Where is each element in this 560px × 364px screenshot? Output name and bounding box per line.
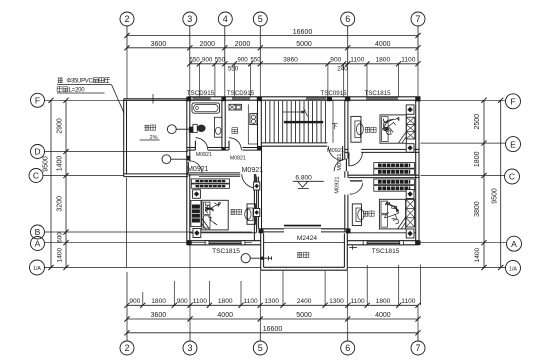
grid bubble F left	[31, 93, 45, 107]
label bedroom3	[230, 209, 235, 211]
grid bubble 1/A right	[506, 261, 521, 276]
dimension extension lines top	[127, 48, 418, 99]
window TSC1815 bottom-left bedroom	[205, 241, 245, 245]
svg-text:M0921: M0921	[242, 167, 264, 174]
svg-text:1100: 1100	[401, 298, 416, 305]
svg-text:6: 6	[345, 343, 350, 353]
window TSC0915 stair top	[306, 97, 326, 100]
svg-text:2: 2	[124, 343, 129, 353]
svg-text:1100: 1100	[351, 298, 366, 305]
svg-text:C: C	[509, 172, 515, 182]
svg-text:7: 7	[415, 343, 420, 353]
svg-text:9500: 9500	[492, 188, 499, 204]
grid bubble 5 bottom	[253, 341, 267, 355]
grid line F	[45, 99, 126, 101]
stair handrail	[284, 121, 323, 123]
dimension line row1 bottom	[124, 298, 420, 308]
grid bubble A right	[507, 236, 522, 251]
svg-text:M0821: M0821	[196, 152, 212, 158]
right dimension line 9500	[492, 98, 504, 270]
svg-text:550: 550	[228, 66, 239, 73]
grid bubble 4 top	[218, 12, 232, 26]
svg-text:2400: 2400	[297, 298, 312, 305]
corner column living-terrace left	[259, 228, 264, 233]
column south-west corner	[187, 240, 192, 245]
kitchen counter edge	[248, 104, 257, 144]
grid bubble F right	[506, 94, 521, 109]
svg-text:TSC1815: TSC1815	[364, 90, 391, 97]
column top wall bath-kitchen	[221, 97, 226, 102]
svg-text:2900: 2900	[57, 118, 64, 134]
grid bubble C right	[505, 169, 520, 184]
window TSC1815 bedroom top	[366, 97, 398, 100]
south wall row A left part	[187, 241, 261, 245]
grid bubble 3 bottom	[183, 341, 197, 355]
kitchen stair wall	[258, 100, 262, 150]
wardrobe band bedroom3 north	[191, 179, 229, 188]
door M0921 stair	[328, 146, 342, 160]
svg-text:900: 900	[177, 298, 188, 305]
bathroom vanity	[215, 117, 223, 137]
svg-text:TSC1815: TSC1815	[372, 248, 400, 255]
grid bubble 1/A left	[30, 260, 45, 275]
svg-text:M2424: M2424	[297, 235, 317, 242]
column top wall at grid3	[187, 97, 192, 102]
svg-text:1800: 1800	[151, 298, 166, 305]
dimension extension lines bottom	[127, 178, 421, 333]
column top wall kitchen-stair	[257, 97, 262, 102]
column top wall grid6	[345, 97, 350, 102]
grid stems top	[127, 26, 418, 64]
rain pipe symbol terrace	[241, 254, 272, 263]
level mark 6.800	[293, 175, 324, 189]
riser tick on terrace top wall	[152, 94, 154, 104]
svg-text:240: 240	[337, 66, 348, 73]
grid bubble D left	[31, 145, 45, 159]
left dimension line segments	[57, 98, 69, 270]
leader note UPVC rain pipe	[57, 78, 124, 113]
svg-text:3800: 3800	[474, 201, 481, 217]
window TSCD915 kitchen top	[232, 97, 250, 100]
wardrobe bedroom3 west vertical	[191, 201, 201, 227]
grid line 1/A	[45, 267, 261, 269]
dimension line row2 bottom	[124, 312, 420, 322]
exterior wall left	[187, 97, 190, 245]
dresser bedroom3	[245, 204, 256, 224]
exterior wall right	[416, 97, 419, 245]
svg-text:3600: 3600	[151, 312, 167, 319]
svg-text:1/A: 1/A	[33, 266, 41, 272]
svg-text:4000: 4000	[217, 312, 233, 319]
svg-text:Φ35UPVC: Φ35UPVC	[67, 79, 94, 85]
svg-text:1400: 1400	[57, 247, 64, 262]
svg-text:5: 5	[258, 343, 263, 353]
column south-east corner	[415, 240, 420, 245]
door M0921 bedroom2	[350, 181, 363, 194]
bedroom3 east wall	[254, 174, 256, 241]
grid bubble 6 bottom	[341, 341, 355, 355]
svg-text:550: 550	[189, 57, 200, 64]
svg-text:M0921: M0921	[327, 148, 344, 154]
svg-text:1400: 1400	[57, 156, 64, 172]
window TSC1815 bottom-right bedroom	[363, 241, 403, 245]
bathroom kitchen divider wall	[222, 100, 225, 150]
grid bubble 3 top	[183, 12, 197, 26]
grid line C right	[421, 175, 505, 177]
terrace label top-left	[140, 125, 160, 141]
grid line A	[45, 242, 253, 244]
interior line row B	[190, 232, 416, 234]
living room west wall	[258, 146, 261, 229]
kitchen stove	[250, 114, 257, 125]
sliding door M2424	[284, 225, 321, 229]
column bedroom1 se	[406, 144, 414, 153]
door M0921 bedroom1	[349, 152, 363, 166]
svg-text:1/A: 1/A	[509, 267, 517, 273]
south wall row A right part	[347, 241, 419, 245]
svg-text:TSC0915: TSC0915	[320, 90, 347, 97]
svg-text:A: A	[35, 239, 41, 249]
dimension line row3 top	[187, 57, 420, 73]
grid bubble E right	[506, 137, 521, 152]
column bedroom3 nw	[193, 190, 201, 199]
svg-text:1300: 1300	[264, 298, 279, 305]
grid line F right	[421, 99, 506, 101]
hall east wall upper	[345, 100, 348, 177]
grid line C	[43, 175, 124, 177]
svg-text:550: 550	[250, 57, 261, 64]
svg-text:1100: 1100	[244, 298, 259, 305]
grid line B	[45, 231, 253, 233]
bedroom2 west wall	[345, 195, 348, 232]
dimension line row2 top	[124, 41, 420, 51]
top-left terrace walls	[124, 99, 188, 177]
column bedroom1 ne	[406, 105, 414, 114]
column top wall stair east	[327, 97, 332, 102]
grid bubble 2 top	[120, 12, 134, 26]
grid line D	[45, 151, 189, 153]
grid line E right	[421, 142, 506, 144]
svg-text:M0921: M0921	[337, 153, 343, 170]
leader tick right of terrace	[349, 246, 357, 250]
toilet	[193, 124, 205, 132]
svg-text:4000: 4000	[375, 41, 391, 48]
svg-text:5000: 5000	[296, 41, 312, 48]
living room south wall	[262, 229, 347, 232]
svg-text:900: 900	[202, 57, 213, 64]
svg-text:2: 2	[124, 14, 129, 24]
rain pipe symbol 1	[167, 125, 193, 134]
svg-text:900: 900	[237, 57, 248, 64]
wardrobe band upper closet right	[374, 163, 415, 175]
dresser bedroom2	[352, 204, 364, 226]
bed bedroom2	[379, 199, 405, 229]
svg-text:1800: 1800	[376, 298, 391, 305]
svg-text:D: D	[34, 147, 40, 157]
svg-text:16600: 16600	[263, 326, 283, 333]
corridor south wall / bedroom3 north wall	[187, 173, 240, 177]
grid bubble 7 bottom	[411, 341, 425, 355]
svg-text:1800: 1800	[218, 298, 233, 305]
stair treads	[266, 100, 333, 143]
svg-text:B: B	[35, 227, 41, 237]
svg-text:M0921: M0921	[187, 166, 209, 173]
door M0821 bathroom	[195, 138, 207, 150]
svg-text:TSCD915: TSCD915	[187, 90, 215, 97]
svg-text:E: E	[510, 139, 516, 149]
svg-text:3600: 3600	[151, 41, 167, 48]
grid bubble 7 top	[411, 12, 425, 26]
svg-text:F: F	[35, 95, 40, 105]
svg-text:1800: 1800	[474, 151, 481, 167]
door M0821 kitchen	[229, 138, 241, 150]
corner column living-terrace right	[346, 228, 351, 233]
terrace threshold line	[264, 242, 345, 244]
window TSCD915 bathroom top	[193, 97, 211, 100]
svg-text:2000: 2000	[235, 41, 251, 48]
column top wall grid7	[415, 97, 420, 102]
svg-text:7: 7	[415, 14, 420, 24]
svg-text:1100: 1100	[401, 57, 416, 64]
svg-text:4: 4	[223, 14, 228, 24]
stair down label	[332, 123, 338, 129]
exterior wall top	[188, 97, 421, 100]
label bedroom2	[363, 210, 368, 212]
wardrobe band lower closet right	[374, 179, 415, 191]
closet divider wall row C right	[348, 175, 419, 177]
column bath wall south	[222, 147, 226, 150]
svg-text:1800: 1800	[375, 57, 390, 64]
svg-text:3200: 3200	[57, 196, 64, 212]
grid stems bottom	[127, 333, 418, 341]
svg-text:2000: 2000	[200, 41, 216, 48]
grid bubble 6 top	[341, 12, 355, 26]
bedroom1 south wall	[345, 149, 419, 152]
svg-text:M0921: M0921	[335, 176, 341, 193]
rain pipe symbol 2	[162, 155, 190, 164]
column bedroom3 sw	[193, 229, 201, 238]
wardrobe bedroom1 east	[406, 117, 415, 139]
terrace label bottom	[297, 251, 302, 253]
svg-text:6: 6	[345, 14, 350, 24]
column bedroom3 e	[254, 209, 260, 217]
svg-text:C: C	[33, 171, 39, 181]
grid bubble B left	[31, 225, 45, 239]
grid bubble C left	[29, 169, 43, 183]
grid bubble 5 top	[253, 12, 267, 26]
door M0921 corridor right	[334, 159, 346, 171]
svg-text:6.800: 6.800	[295, 175, 312, 182]
entry door M0921 left wall	[188, 161, 202, 174]
column bedroom3 ne	[254, 182, 260, 190]
column bedroom2 ne	[406, 190, 414, 199]
svg-text:1100: 1100	[193, 298, 208, 305]
svg-text:1400: 1400	[474, 247, 481, 262]
svg-text:F: F	[510, 97, 515, 107]
column bedroom2 se	[406, 229, 414, 238]
svg-text:A: A	[511, 239, 517, 249]
dimension line 16600 top	[124, 29, 420, 38]
svg-text:3: 3	[187, 14, 192, 24]
svg-text:900: 900	[129, 298, 140, 305]
dimension line 16600 bottom	[124, 326, 420, 336]
bathtub	[192, 103, 220, 113]
svg-text:1300: 1300	[329, 298, 344, 305]
kitchen label	[232, 127, 238, 129]
label bedroom1	[365, 126, 370, 128]
kitchen south wall	[225, 148, 261, 151]
bed bedroom3	[202, 200, 228, 230]
bed bedroom1	[380, 115, 406, 143]
svg-text:4000: 4000	[375, 312, 391, 319]
column kitchen-stair south	[257, 146, 261, 150]
wardrobe bedroom2 east	[406, 200, 415, 228]
door M0921 bedroom3	[242, 174, 256, 188]
svg-text:5: 5	[258, 14, 263, 24]
svg-text:2500: 2500	[474, 114, 481, 130]
terrace bottom walls	[261, 232, 348, 270]
svg-text:9500: 9500	[43, 156, 50, 172]
stair up arrow	[283, 108, 308, 117]
stair south wall	[261, 143, 327, 146]
svg-text:TSCD915: TSCD915	[227, 90, 255, 97]
kitchen sink counter	[229, 104, 242, 110]
left dimension line 9500	[43, 98, 54, 270]
svg-text:5000: 5000	[296, 312, 312, 319]
svg-text:16600: 16600	[293, 29, 313, 36]
svg-text:M0821: M0821	[230, 155, 246, 161]
svg-text:3: 3	[187, 343, 192, 353]
svg-text:1100: 1100	[350, 57, 365, 64]
svg-text:3860: 3860	[283, 57, 298, 64]
right dimension line segments	[474, 98, 487, 270]
grid bubble 2 bottom	[120, 341, 134, 355]
svg-text:TSC1815: TSC1815	[212, 248, 240, 255]
bathroom south wall	[187, 148, 225, 151]
dresser bedroom1	[351, 116, 363, 142]
grid bubble A left	[31, 237, 45, 251]
grid line A right	[421, 242, 507, 244]
grid line 1/A right	[348, 267, 506, 269]
svg-text:600: 600	[57, 232, 64, 243]
svg-text:900: 900	[330, 57, 341, 64]
svg-text:550: 550	[215, 57, 226, 64]
